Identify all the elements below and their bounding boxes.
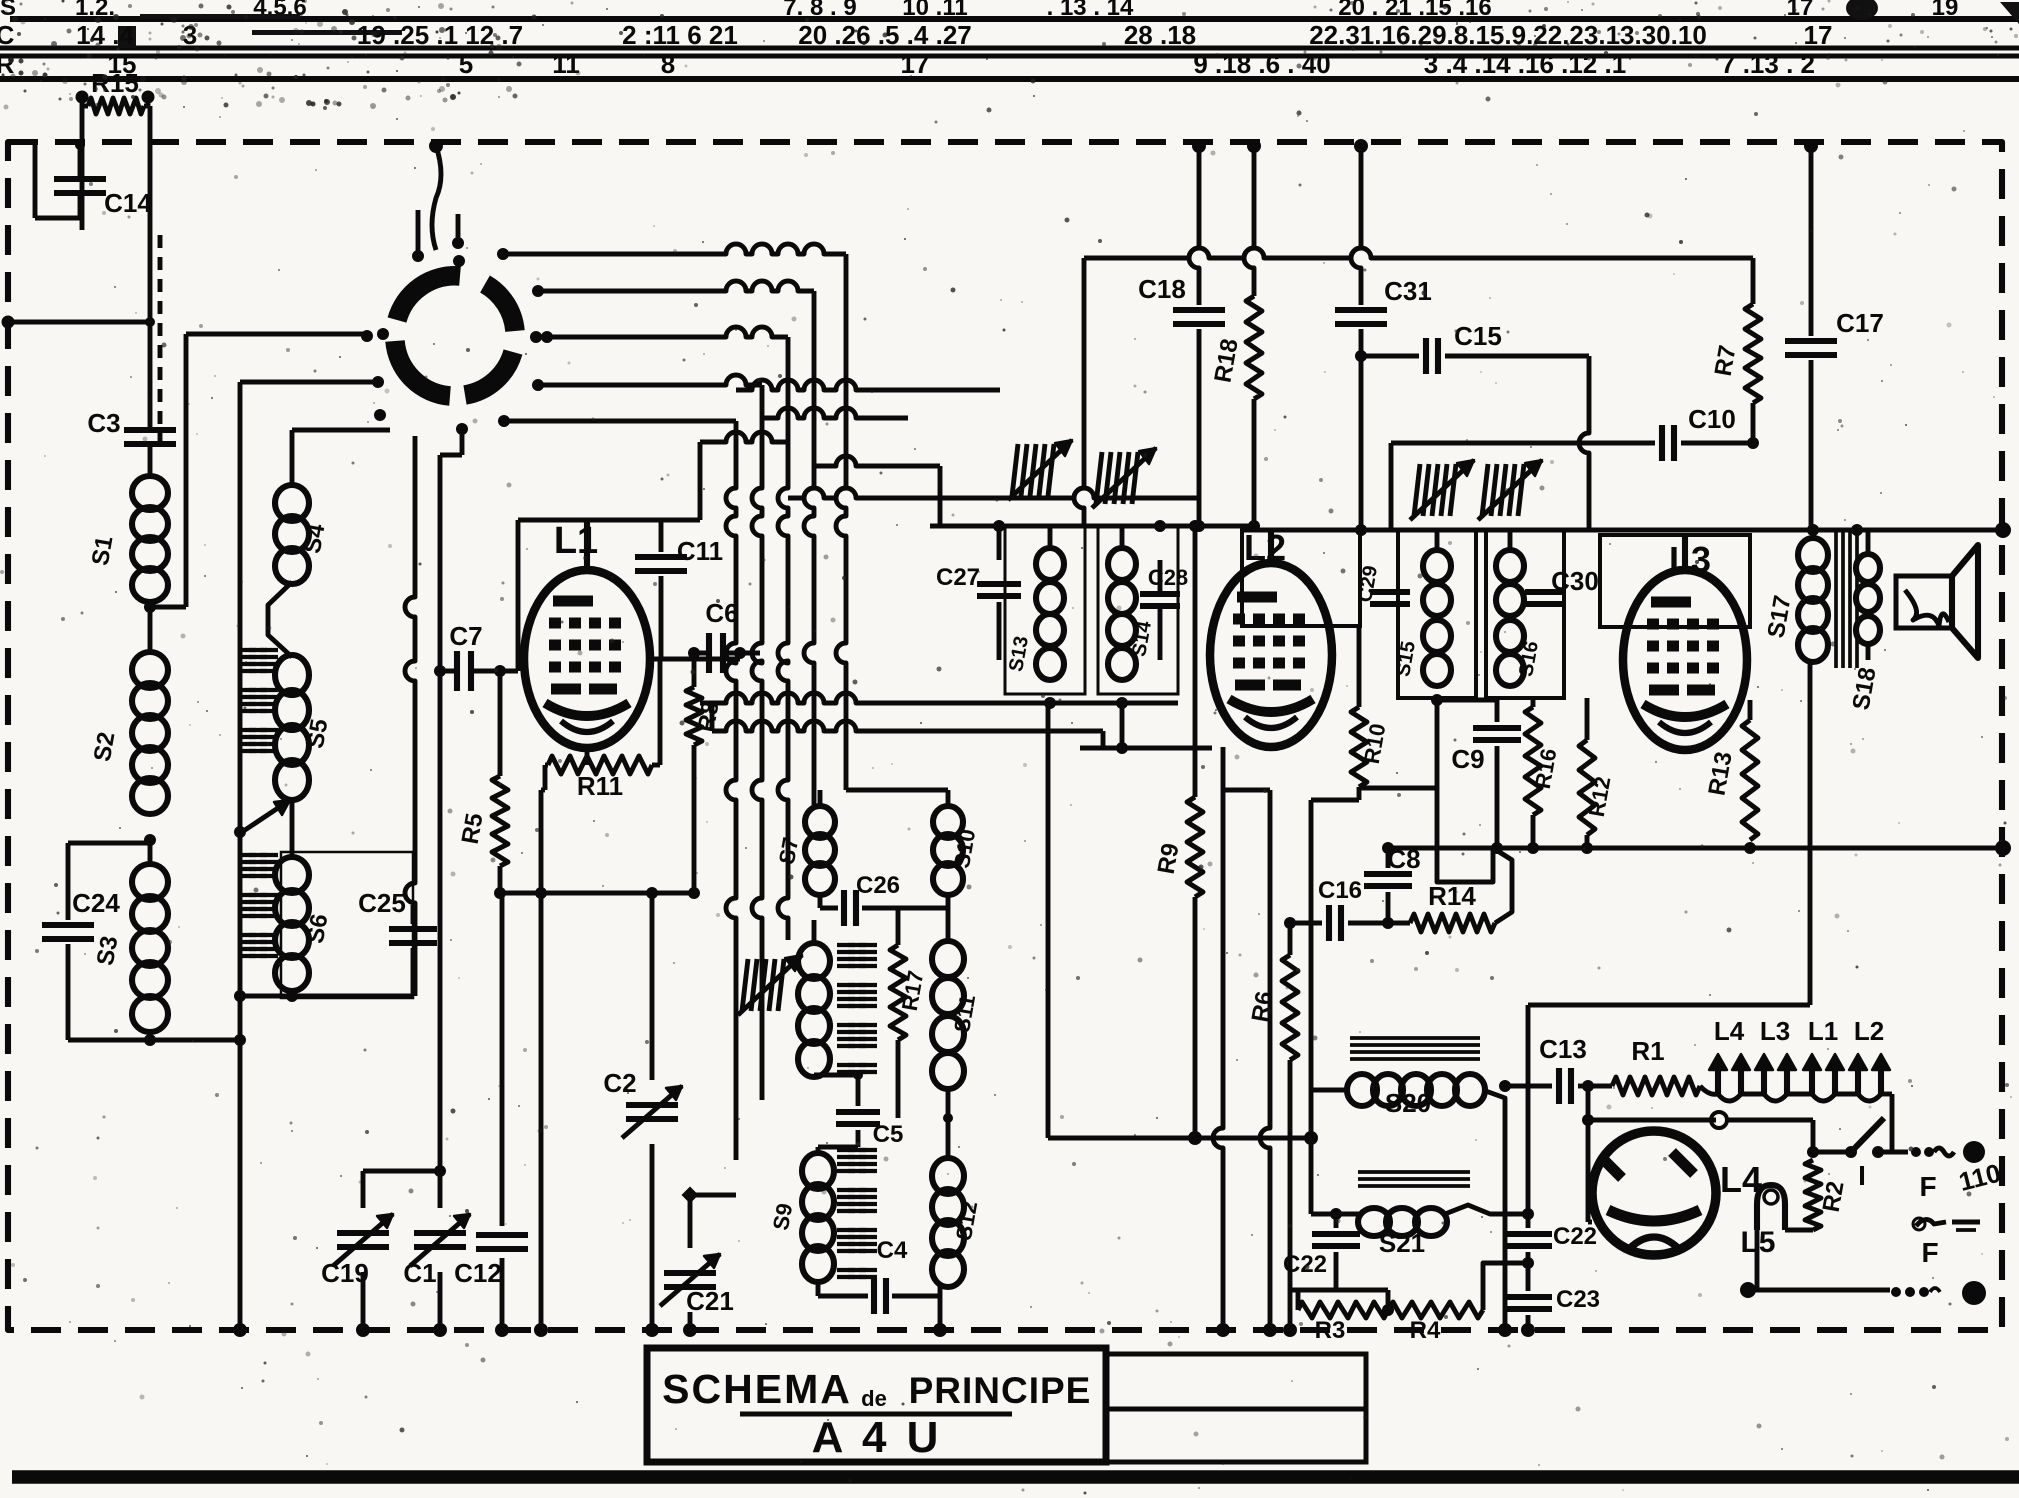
- wire: [1309, 1138, 1314, 1214]
- svg-text:7 .13 . 2: 7 .13 . 2: [1721, 49, 1815, 79]
- svg-text:R4: R4: [1410, 1317, 1441, 1344]
- resistor R12: [1585, 698, 1590, 740]
- capacitor C31: [1351, 146, 1361, 305]
- wire: [1431, 694, 1443, 706]
- capacitor C22: [1504, 1231, 1552, 1237]
- wire: [1582, 1114, 1594, 1126]
- coil S11: [946, 908, 951, 940]
- svg-text:2 :11 6 21: 2 :11 6 21: [622, 20, 738, 50]
- svg-text:C13: C13: [1539, 1034, 1587, 1064]
- capacitor C16: [1326, 905, 1332, 941]
- svg-text:C11: C11: [677, 536, 723, 566]
- svg-text:C19: C19: [321, 1258, 369, 1288]
- capacitor C6: [706, 633, 712, 673]
- wire: [516, 520, 521, 671]
- wire: [1528, 1003, 1810, 1008]
- svg-text:17: 17: [1804, 20, 1833, 50]
- capacitor C26: [818, 893, 823, 908]
- svg-text:C6: C6: [705, 598, 738, 628]
- wire: [1445, 1205, 1528, 1214]
- resistor R17: [896, 908, 901, 945]
- svg-text:3 .4 .14 .16 .12 .1: 3 .4 .14 .16 .12 .1: [1424, 49, 1626, 79]
- svg-text:17: 17: [901, 49, 930, 79]
- wire: [1526, 1005, 1531, 1228]
- svg-text:R3: R3: [1315, 1317, 1346, 1344]
- wire: [736, 380, 1000, 390]
- svg-text:C: C: [0, 20, 15, 50]
- capacitor C17: [1809, 146, 1814, 336]
- resistor R13: [1748, 700, 1753, 720]
- wire: [1046, 703, 1051, 1138]
- node tube box L3: [1600, 535, 1750, 627]
- capacitor C13: [1505, 1084, 1552, 1089]
- svg-text:S6: S6: [302, 912, 334, 946]
- svg-text:L3: L3: [1669, 539, 1711, 580]
- resistor R16: [1531, 698, 1536, 707]
- coil S3: [148, 840, 153, 865]
- variable capacitor C20: [742, 959, 748, 1011]
- svg-text:R5: R5: [457, 811, 489, 846]
- wire: [712, 721, 1103, 731]
- svg-text:S9: S9: [768, 1201, 797, 1232]
- wire: [1260, 790, 1270, 1330]
- coil S1: [132, 476, 168, 510]
- svg-text:C22: C22: [1553, 1223, 1597, 1250]
- wire: [1813, 1150, 1851, 1155]
- wire: [1080, 746, 1212, 751]
- svg-text:R14: R14: [1428, 881, 1476, 911]
- capacitor C30: [1525, 589, 1565, 595]
- wire: [494, 887, 506, 899]
- wire: [12, 1470, 2019, 1483]
- svg-text:F: F: [1921, 1237, 1938, 1268]
- svg-text:L2: L2: [1244, 527, 1286, 568]
- svg-text:C8: C8: [1387, 844, 1420, 874]
- wire: [762, 408, 908, 418]
- coil S6: [275, 857, 309, 893]
- wire: [1192, 139, 1206, 153]
- wire: [240, 380, 376, 385]
- wire: [1074, 258, 1084, 526]
- resistor R11: [585, 748, 590, 765]
- capacitor C11: [587, 518, 661, 523]
- resistor R18: [1244, 146, 1254, 296]
- wire: [242, 800, 290, 832]
- resistor R9: [1193, 526, 1198, 797]
- svg-text:C4: C4: [877, 1237, 908, 1264]
- wire: [460, 429, 465, 455]
- loudspeaker: [1896, 576, 1952, 628]
- pentode L2: [1210, 563, 1332, 747]
- svg-text:C12: C12: [454, 1258, 502, 1288]
- wire: [846, 788, 948, 793]
- svg-text:C3: C3: [87, 408, 120, 438]
- svg-text:C30: C30: [1551, 566, 1599, 596]
- trimmer capacitor: [1012, 444, 1018, 496]
- iron core of S6: [238, 853, 256, 857]
- capacitor C27: [997, 526, 1002, 560]
- coil S5: [275, 655, 309, 695]
- wire: [930, 524, 1254, 529]
- svg-text:R9: R9: [1153, 841, 1185, 876]
- wire: [700, 432, 788, 442]
- svg-text:S4: S4: [299, 521, 331, 555]
- resistor R6: [1284, 917, 1296, 929]
- svg-text:10 .11: 10 .11: [902, 0, 967, 21]
- svg-text:9 .18 .6 . 40: 9 .18 .6 . 40: [1193, 49, 1330, 79]
- variable capacitor C2: [650, 893, 655, 1080]
- wire: [1483, 1090, 1505, 1330]
- wire: [158, 235, 163, 446]
- svg-text:C7: C7: [449, 621, 482, 651]
- node junction S2/S3: [144, 834, 156, 846]
- resistor R1: [1612, 1077, 1700, 1095]
- trimmer capacitor: [1414, 464, 1420, 516]
- wire: [1385, 846, 2003, 851]
- wire: [268, 582, 292, 657]
- svg-text:L4: L4: [1714, 1016, 1745, 1046]
- wire: [1290, 1288, 1388, 1293]
- triode-hexode L1: [524, 570, 650, 748]
- wire: [700, 693, 1178, 703]
- rectifier tube L4: [1592, 1131, 1716, 1255]
- wire: [429, 139, 443, 153]
- svg-text:C25: C25: [358, 888, 406, 918]
- svg-text:11: 11: [552, 49, 580, 79]
- svg-text:. 13 . 14: . 13 . 14: [1047, 0, 1134, 21]
- coil S10: [946, 790, 951, 808]
- svg-text:1.2.: 1.2.: [75, 0, 115, 21]
- wire: [788, 488, 1198, 498]
- node title-block: [1106, 1354, 1366, 1462]
- wire: [539, 790, 544, 1330]
- coil S4: [290, 430, 295, 487]
- capacitor C22: [1312, 1231, 1360, 1237]
- svg-text:R7: R7: [1710, 343, 1742, 378]
- svg-text:S20: S20: [1385, 1088, 1431, 1118]
- transformer box S13: [1005, 526, 1085, 694]
- wire: [538, 281, 814, 291]
- coil S2: [132, 652, 168, 688]
- terminal F (top): [1911, 1147, 1921, 1157]
- svg-text:C9: C9: [1451, 744, 1484, 774]
- svg-text:A 4 U: A 4 U: [812, 1413, 943, 1462]
- svg-text:20 . 21 .15 .16: 20 . 21 .15 .16: [1338, 0, 1491, 21]
- iron core: [837, 1148, 855, 1152]
- capacitor C28: [1140, 591, 1180, 597]
- svg-text:7. 8 . 9: 7. 8 . 9: [783, 0, 856, 21]
- wire: [292, 428, 390, 433]
- coil S12: [932, 1158, 964, 1194]
- node switch contacts: [361, 330, 373, 342]
- coil S8: [812, 920, 817, 945]
- wire: [538, 375, 762, 385]
- pilot lamp L4: [1715, 1066, 1721, 1094]
- node shield box S6/C25: [281, 852, 413, 998]
- capacitor C18: [1189, 146, 1199, 305]
- resistor R14: [1410, 914, 1495, 932]
- svg-text:de: de: [861, 1386, 887, 1411]
- capacitor C23: [1504, 1294, 1552, 1300]
- wire: [1700, 1086, 1718, 1094]
- wire: [504, 419, 736, 424]
- coil S17: [1807, 524, 1819, 536]
- wire: [1242, 528, 2003, 533]
- variable capacitor C1: [438, 1171, 443, 1208]
- wire: [416, 210, 421, 256]
- wire: [290, 989, 295, 996]
- resistor R4: [1388, 1302, 1483, 1318]
- coil S14: [1120, 526, 1125, 548]
- svg-text:S3: S3: [92, 934, 124, 968]
- wire: [1493, 848, 1512, 923]
- pilot lamp L3: [1761, 1066, 1767, 1094]
- capacitor C3: [124, 427, 176, 433]
- capacitor C7: [454, 651, 460, 691]
- transformer box S15: [1398, 530, 1476, 698]
- wire: [1785, 1228, 1813, 1233]
- svg-text:C14: C14: [104, 188, 152, 218]
- svg-text:L1: L1: [1808, 1016, 1838, 1046]
- resistor R15: [76, 91, 89, 104]
- resistor R7: [1751, 258, 1756, 304]
- svg-text:F: F: [1919, 1171, 1936, 1202]
- svg-text:17: 17: [1787, 0, 1814, 21]
- transformer box S14: [1098, 526, 1178, 694]
- svg-text:C15: C15: [1454, 321, 1502, 351]
- coil S9: [802, 1153, 834, 1189]
- capacitor C14: [33, 142, 38, 218]
- wire: [547, 327, 788, 337]
- dashed enclosure border: [8, 142, 2002, 1330]
- svg-text:C1: C1: [403, 1258, 436, 1288]
- capacitor C10: [1659, 425, 1665, 461]
- wire: [148, 106, 153, 420]
- wire: [503, 244, 846, 254]
- variable capacitor C21: [682, 1187, 699, 1204]
- resistor R3: [1296, 1290, 1301, 1310]
- svg-text:5: 5: [459, 49, 473, 79]
- svg-text:S1: S1: [87, 534, 119, 568]
- node ink smudges: [118, 26, 136, 48]
- svg-text:C23: C23: [1556, 1286, 1600, 1313]
- svg-text:L2: L2: [1854, 1016, 1884, 1046]
- wire: [1311, 1088, 1348, 1093]
- svg-text:C27: C27: [936, 564, 980, 591]
- coil S15: [1435, 530, 1440, 548]
- resistor R10: [1357, 626, 1362, 707]
- iron core: [837, 943, 855, 947]
- svg-text:C21: C21: [686, 1286, 734, 1316]
- resistor R8: [692, 653, 697, 687]
- svg-text:C17: C17: [1836, 308, 1884, 338]
- svg-text:C16: C16: [1318, 877, 1362, 904]
- svg-text:C2: C2: [603, 1068, 636, 1098]
- wire: [1311, 798, 1359, 803]
- wire: [1084, 248, 1753, 258]
- wire: [434, 665, 446, 677]
- wire: [1391, 441, 1655, 446]
- svg-text:R15: R15: [91, 68, 139, 98]
- svg-text:R11: R11: [577, 771, 623, 801]
- svg-text:S7: S7: [774, 835, 803, 866]
- capacitor C4: [816, 1280, 821, 1296]
- svg-text:I: I: [1858, 1160, 1866, 1191]
- wire: [0, 76, 2019, 82]
- variable capacitor C19: [363, 1169, 440, 1174]
- capacitor C25: [411, 905, 416, 924]
- svg-text:R2: R2: [1818, 1179, 1850, 1214]
- coil S20: [1350, 1036, 1480, 1040]
- wire: [650, 657, 740, 662]
- capacitor C12: [500, 893, 505, 1226]
- svg-text:SCHEMA: SCHEMA: [662, 1366, 852, 1412]
- wire: [238, 382, 243, 1330]
- coil S16: [1508, 530, 1513, 548]
- capacitor C8: [1386, 848, 1391, 868]
- svg-text:22.31.16.29.8.15.9.22.23.13.30: 22.31.16.29.8.15.9.22.23.13.30.10: [1309, 20, 1707, 50]
- wire: [1579, 356, 1589, 530]
- wire: [0, 46, 2019, 51]
- capacitor C24: [68, 841, 150, 846]
- trimmer capacitor: [1096, 452, 1102, 504]
- trimmer capacitor: [1482, 464, 1488, 516]
- wire: [1213, 747, 1223, 1330]
- capacitor C29: [1370, 589, 1410, 595]
- svg-text:C18: C18: [1138, 274, 1186, 304]
- wire: [0, 54, 2019, 59]
- wire: [10, 16, 2019, 22]
- svg-text:C10: C10: [1688, 404, 1736, 434]
- node junction S3 bottom: [144, 1034, 156, 1046]
- coil S21: [1358, 1170, 1470, 1174]
- wire: [1437, 788, 1493, 882]
- capacitor C9: [1437, 698, 1497, 703]
- rotary switch wafer: [395, 341, 450, 396]
- iron core of S17/S18: [1834, 528, 1838, 668]
- svg-text:C26: C26: [856, 872, 900, 899]
- wire: [1048, 1136, 1311, 1141]
- capacitor C5: [856, 1075, 861, 1106]
- coil L5: [1757, 1185, 1785, 1230]
- wire: [2, 316, 15, 329]
- wire: [938, 1296, 943, 1330]
- terminal F (bottom): [1748, 1288, 1890, 1293]
- svg-text:14 .4: 14 .4: [76, 20, 134, 50]
- svg-text:R6: R6: [1247, 989, 1279, 1024]
- svg-text:S21: S21: [1379, 1228, 1425, 1258]
- resistor R2: [1807, 1146, 1819, 1158]
- pilot lamp L2: [1855, 1066, 1861, 1094]
- svg-text:19: 19: [1932, 0, 1959, 21]
- svg-text:28 .18: 28 .18: [1124, 20, 1196, 50]
- svg-text:S5: S5: [302, 717, 334, 751]
- wire: [144, 601, 156, 613]
- svg-text:C28: C28: [1148, 565, 1188, 590]
- svg-text:PRINCIPE: PRINCIPE: [909, 1370, 1092, 1411]
- transformer box S16: [1486, 530, 1564, 698]
- node tube box L2: [1242, 530, 1360, 626]
- svg-text:R1: R1: [1631, 1036, 1664, 1066]
- svg-text:L1: L1: [554, 520, 598, 562]
- wire: [946, 1090, 951, 1160]
- wire: [1483, 1263, 1528, 1310]
- wire: [698, 442, 703, 520]
- capacitor C15: [1361, 354, 1419, 359]
- wire: [150, 1038, 240, 1043]
- svg-text:C24: C24: [72, 888, 120, 918]
- coil S13: [1048, 526, 1053, 548]
- coil S7: [818, 790, 823, 808]
- pentode L3: [1623, 570, 1747, 750]
- svg-text:L3: L3: [1760, 1016, 1790, 1046]
- switch I: [1845, 1146, 1857, 1158]
- svg-text:C5: C5: [873, 1121, 904, 1148]
- pilot lamp L1: [1809, 1066, 1815, 1094]
- iron core of S5: [238, 648, 256, 652]
- wire: [814, 456, 940, 466]
- svg-text:8: 8: [661, 49, 675, 79]
- resistor R5: [498, 671, 503, 776]
- coil S18: [1866, 530, 1871, 552]
- wire: [184, 334, 189, 607]
- svg-text:S2: S2: [89, 730, 121, 764]
